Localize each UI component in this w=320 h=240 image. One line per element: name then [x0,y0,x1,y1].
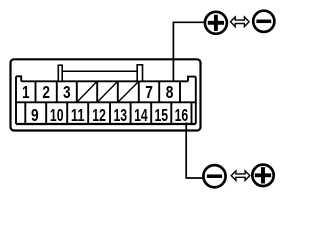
pin 8 right edge [179,81,181,102]
pin 15 divider [170,102,172,124]
connector body right wall [195,77,197,124]
plus sign (bottom) [255,167,271,183]
svg-text:15: 15 [155,105,169,125]
body top line between tabs [62,70,137,72]
swap arrow (bottom) [231,171,250,181]
svg-text:8: 8 [166,82,174,102]
terminal circle minus (top) [253,11,274,32]
pin 2 divider [56,81,58,102]
pin 5 divider [117,81,119,102]
svg-text:10: 10 [50,105,64,125]
svg-text:14: 14 [134,105,148,125]
pin 1 divider [35,81,37,102]
pin 10 divider [66,102,68,124]
connector body bottom edge [16,123,196,125]
row divider [16,101,196,103]
svg-text:7: 7 [145,82,153,102]
minus sign (bottom) [207,174,222,178]
pin 4 blocked hatch [77,81,97,102]
keying notch right [188,77,196,82]
svg-text:3: 3 [63,82,71,102]
svg-text:2: 2 [42,82,50,102]
plus sign (top) [208,15,224,31]
pin 5 blocked hatch [97,81,118,102]
pin 9 left edge [24,102,26,124]
svg-text:11: 11 [71,105,85,125]
terminal circle plus (bottom) [252,165,273,186]
pin 4 divider [96,81,98,102]
swap arrow (top) [231,17,250,27]
svg-text:9: 9 [31,105,39,125]
pin 9 divider [45,102,47,124]
connector housing outline [11,59,201,130]
connector body left wall [15,76,17,124]
wire pin8 to top terminal [173,22,204,81]
pin 7 divider [158,81,160,102]
wire pin16 to bottom terminal [186,123,202,179]
connector body top edge row1 [21,80,188,82]
svg-text:13: 13 [114,105,128,125]
pin 12 divider [109,102,111,124]
pin 6 blocked hatch [118,81,139,102]
svg-text:12: 12 [92,105,106,125]
pin 13 divider [130,102,132,124]
terminal circle plus (top) [205,12,227,34]
minus sign (top) [256,20,271,24]
pin 16 right edge [191,102,193,124]
pin 11 divider [87,102,89,124]
keying notch left [16,76,21,81]
pin 6 divider [138,81,140,102]
terminal circle minus (bottom) [203,165,225,187]
svg-text:16: 16 [175,105,189,125]
latch tab left [58,65,62,81]
pin 3 divider [76,81,78,102]
latch tab right [137,65,142,82]
pin 14 divider [150,102,152,124]
svg-text:1: 1 [22,82,30,102]
